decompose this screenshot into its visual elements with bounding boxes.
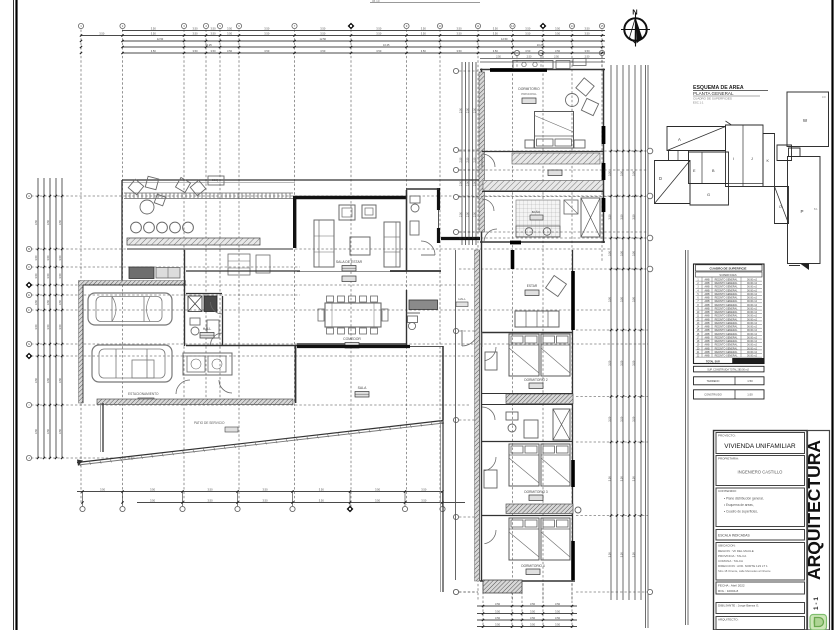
svg-text:3.50: 3.50 bbox=[58, 428, 62, 434]
svg-text:F: F bbox=[28, 308, 30, 312]
upper wing outer walls bbox=[480, 69, 605, 244]
key plan E B block bbox=[689, 152, 729, 184]
bar stools bbox=[131, 222, 194, 233]
svg-text:3.50: 3.50 bbox=[607, 476, 611, 482]
svg-text:TERRENO: TERRENO bbox=[707, 379, 720, 383]
svg-text:3.50: 3.50 bbox=[555, 32, 561, 36]
svg-text:DORMITORIO: DORMITORIO bbox=[518, 87, 540, 91]
svg-text:00.00 m2: 00.00 m2 bbox=[747, 286, 758, 289]
svg-text:RECINTO GENERAL: RECINTO GENERAL bbox=[715, 315, 738, 318]
key plan K rect bbox=[763, 134, 775, 187]
svg-text:3.50: 3.50 bbox=[607, 296, 611, 302]
svg-text:3.50: 3.50 bbox=[584, 32, 590, 36]
title block frame bbox=[714, 431, 808, 630]
svg-text:15: 15 bbox=[600, 24, 604, 28]
svg-text:3.50: 3.50 bbox=[619, 552, 623, 558]
living second label bbox=[342, 276, 356, 282]
wing-left rail dimension texts bbox=[459, 107, 476, 216]
svg-text:3.50: 3.50 bbox=[619, 360, 623, 366]
terrace window band bbox=[124, 193, 293, 199]
svg-text:10.25: 10.25 bbox=[537, 43, 544, 47]
bottom-left rail dimension texts bbox=[100, 488, 427, 503]
svg-text:RECINTO GENERAL: RECINTO GENERAL bbox=[715, 286, 738, 289]
svg-text:3.50: 3.50 bbox=[375, 499, 381, 503]
svg-text:00.00 m2: 00.00 m2 bbox=[747, 282, 758, 285]
grid line y=196 bbox=[26, 193, 610, 198]
svg-text:3.50: 3.50 bbox=[530, 616, 536, 620]
svg-text:3.50: 3.50 bbox=[456, 27, 462, 31]
dibujante box bbox=[716, 603, 805, 614]
bottom bubble x=237.5 bbox=[235, 490, 240, 511]
svg-text:3.50: 3.50 bbox=[493, 32, 499, 36]
bath2 fixtures bbox=[506, 412, 538, 510]
svg-text:AMB: AMB bbox=[705, 279, 710, 282]
svg-text:2.50: 2.50 bbox=[466, 157, 469, 162]
key plan A trapezoid bbox=[667, 127, 726, 151]
svg-text:3.50: 3.50 bbox=[34, 428, 38, 434]
svg-text:G: G bbox=[707, 192, 710, 197]
svg-text:AMB: AMB bbox=[705, 300, 710, 303]
svg-text:00.00 m2: 00.00 m2 bbox=[747, 318, 758, 321]
garage car 2 bbox=[92, 345, 172, 382]
svg-text:3.50: 3.50 bbox=[264, 32, 270, 36]
svg-text:RECINTO GENERAL: RECINTO GENERAL bbox=[715, 326, 738, 329]
patio left wall bbox=[101, 403, 104, 452]
grid line x=206 bbox=[203, 23, 208, 400]
svg-text:2.50: 2.50 bbox=[459, 211, 462, 216]
svg-text:AMB: AMB bbox=[705, 282, 710, 285]
svg-text:2.50: 2.50 bbox=[473, 157, 476, 162]
grid line x=440 bbox=[437, 23, 442, 505]
kitchen counter hatched bbox=[127, 238, 293, 249]
vertical wing thick black segments bbox=[513, 250, 574, 580]
svg-text:3.50: 3.50 bbox=[320, 49, 326, 53]
bath tiled floor bbox=[516, 200, 560, 237]
svg-text:AMB: AMB bbox=[705, 333, 710, 336]
key plan G rect bbox=[690, 184, 729, 206]
bottom wing rail dimension texts bbox=[495, 602, 561, 627]
svg-text:RECINTO GENERAL: RECINTO GENERAL bbox=[715, 355, 738, 358]
svg-text:AMB: AMB bbox=[705, 315, 710, 318]
bottom bubble x=82.5 bbox=[80, 490, 85, 511]
patio label bbox=[194, 421, 238, 432]
grid line x=220 bbox=[217, 23, 222, 400]
svg-text:06 10: 06 10 bbox=[372, 0, 380, 3]
grid line x=351 bbox=[348, 23, 355, 512]
svg-text:RECINTO GENERAL: RECINTO GENERAL bbox=[715, 347, 738, 350]
svg-text:3.50: 3.50 bbox=[631, 476, 635, 482]
svg-text:12: 12 bbox=[511, 24, 515, 28]
svg-text:3.50: 3.50 bbox=[607, 170, 611, 176]
key plan connector lines bbox=[729, 184, 775, 187]
svg-text:2.50: 2.50 bbox=[473, 107, 476, 112]
svg-text:ARQUITECTURA: ARQUITECTURA bbox=[804, 440, 824, 580]
svg-text:C: C bbox=[28, 265, 30, 269]
svg-text:00.00 m2: 00.00 m2 bbox=[747, 279, 758, 282]
svg-text:3.50: 3.50 bbox=[227, 27, 233, 31]
svg-text:N: N bbox=[632, 8, 637, 17]
svg-text:3.50: 3.50 bbox=[58, 324, 62, 330]
diagonal tip arrow bbox=[77, 460, 83, 467]
master nightstands bbox=[525, 140, 585, 148]
hall closet dark band bbox=[409, 300, 438, 310]
svg-text:RECINTO GENERAL: RECINTO GENERAL bbox=[715, 282, 738, 285]
wing bottom right circled bbox=[575, 507, 581, 513]
svg-text:3.50: 3.50 bbox=[46, 428, 50, 434]
svg-text:3.50: 3.50 bbox=[58, 299, 62, 305]
right dimension rails bbox=[611, 65, 688, 628]
svg-text:BBQ: BBQ bbox=[212, 178, 219, 182]
dark storage box bbox=[204, 296, 217, 312]
svg-text:3.50: 3.50 bbox=[376, 27, 382, 31]
master bed bbox=[535, 112, 574, 149]
svg-text:SUPERFICIES: SUPERFICIES bbox=[719, 273, 737, 277]
svg-text:3.50: 3.50 bbox=[530, 610, 536, 614]
right bubble y=238 bbox=[610, 235, 653, 241]
svg-text:RECINTO GENERAL: RECINTO GENERAL bbox=[715, 340, 738, 343]
svg-text:RECINTO GENERAL: RECINTO GENERAL bbox=[715, 300, 738, 303]
wing horizontal grid dashes bbox=[459, 151, 648, 269]
svg-text:HALL: HALL bbox=[203, 327, 212, 331]
svg-text:RECINTO GENERAL: RECINTO GENERAL bbox=[715, 289, 738, 292]
bottom bubble x=182.5 bbox=[180, 490, 185, 511]
svg-text:3.50: 3.50 bbox=[631, 250, 635, 256]
key plan O piece bbox=[775, 187, 789, 224]
svg-text:14: 14 bbox=[570, 24, 574, 28]
grid line x=543 bbox=[540, 23, 547, 600]
wing top rail dimension texts bbox=[496, 56, 590, 59]
svg-text:3.50: 3.50 bbox=[584, 49, 590, 53]
corridor walls to wing bbox=[410, 250, 456, 580]
svg-text:DORMITORIO 2: DORMITORIO 2 bbox=[524, 378, 548, 382]
garage walls bbox=[79, 250, 187, 403]
svg-text:ARQUITECTO:: ARQUITECTO: bbox=[718, 618, 739, 622]
svg-text:AMB: AMB bbox=[705, 318, 710, 321]
svg-text:DIRECCION : AVD. NORTE 123 LT: DIRECCION : AVD. NORTE 123 LT 1 bbox=[718, 564, 768, 568]
right page border bbox=[831, 0, 833, 630]
svg-text:3.50: 3.50 bbox=[631, 416, 635, 422]
svg-text:3.50: 3.50 bbox=[58, 255, 62, 261]
bath sinks bbox=[516, 226, 560, 237]
svg-text:RECINTO GENERAL: RECINTO GENERAL bbox=[715, 344, 738, 347]
bottom bubble x=442.5 bbox=[440, 490, 445, 511]
upper wing door arcs bbox=[482, 154, 497, 242]
bath fixtures bbox=[190, 302, 223, 345]
svg-text:AMB: AMB bbox=[705, 289, 710, 292]
living armchair squares bbox=[339, 205, 376, 220]
fecha box bbox=[716, 582, 805, 594]
bubble x456 y=331 bbox=[453, 328, 478, 333]
svg-text:DORMITORIO 3: DORMITORIO 3 bbox=[524, 490, 548, 494]
svg-text:3.50: 3.50 bbox=[99, 32, 105, 36]
svg-text:3.50: 3.50 bbox=[319, 499, 325, 503]
svg-text:3.50: 3.50 bbox=[493, 27, 499, 31]
svg-text:3.50: 3.50 bbox=[151, 49, 157, 53]
kitchen left wall bbox=[121, 180, 123, 282]
grid line x=572 bbox=[569, 23, 574, 600]
svg-text:3.50: 3.50 bbox=[456, 32, 462, 36]
grid line y=249 bbox=[26, 246, 610, 251]
bottom-left dimension rails bbox=[77, 492, 465, 503]
svg-text:3.50: 3.50 bbox=[46, 377, 50, 383]
terrace table small bbox=[208, 176, 224, 185]
svg-text:AMB: AMB bbox=[705, 336, 710, 339]
svg-text:2.50: 2.50 bbox=[459, 107, 462, 112]
svg-text:3.50: 3.50 bbox=[530, 602, 536, 606]
svg-text:A: A bbox=[678, 137, 681, 142]
grid line y=295 bbox=[26, 292, 300, 297]
svg-text:3.50: 3.50 bbox=[227, 32, 233, 36]
svg-text:• Plano distribución general: • Plano distribución general, bbox=[724, 497, 764, 501]
wing left rails bbox=[462, 62, 476, 245]
family room top wall bbox=[296, 345, 411, 403]
bottom bubble x=350 bbox=[347, 490, 354, 512]
bubble x456 y=592 bbox=[453, 589, 478, 594]
svg-text:3.50: 3.50 bbox=[421, 49, 427, 53]
svg-text:I: I bbox=[733, 157, 734, 161]
svg-text:3.50: 3.50 bbox=[34, 219, 38, 225]
svg-text:ROL : 10004-8: ROL : 10004-8 bbox=[718, 589, 738, 593]
svg-text:AMB: AMB bbox=[705, 329, 710, 332]
svg-text:3.50: 3.50 bbox=[151, 32, 157, 36]
svg-text:3.50: 3.50 bbox=[631, 552, 635, 558]
bottom bubbles bbox=[453, 589, 652, 594]
svg-text:3.0: 3.0 bbox=[822, 95, 826, 99]
svg-text:COMUNA : TALCA: COMUNA : TALCA bbox=[718, 559, 743, 563]
right rail dimension texts bbox=[607, 170, 635, 557]
svg-text:3.50: 3.50 bbox=[34, 377, 38, 383]
walkin label bbox=[548, 170, 562, 176]
svg-text:8.1: 8.1 bbox=[814, 207, 818, 211]
bubble x456 y=420 bbox=[453, 417, 478, 422]
living center table bbox=[350, 237, 370, 255]
right horizontal dashed lines bbox=[576, 329, 648, 517]
ubicacion box bbox=[716, 543, 805, 581]
svg-text:3.50: 3.50 bbox=[555, 616, 561, 620]
left dimension rails bbox=[38, 178, 62, 458]
upper wing right wall thick segments bbox=[602, 126, 606, 212]
svg-text:3.50: 3.50 bbox=[207, 488, 213, 492]
svg-text:00.00 m2: 00.00 m2 bbox=[747, 326, 758, 329]
svg-text:3.50: 3.50 bbox=[631, 170, 635, 176]
svg-text:• Esquema de areas,: • Esquema de areas, bbox=[724, 503, 754, 507]
terrace chairs bbox=[128, 176, 205, 214]
svg-text:RECINTO GENERAL: RECINTO GENERAL bbox=[715, 329, 738, 332]
master chairs corner bbox=[566, 78, 599, 116]
svg-text:AMB: AMB bbox=[705, 297, 710, 300]
svg-text:3.50: 3.50 bbox=[262, 488, 268, 492]
svg-text:2.50: 2.50 bbox=[466, 211, 469, 216]
arquitecto box bbox=[716, 617, 805, 630]
svg-text:00.00 m2: 00.00 m2 bbox=[747, 347, 758, 350]
svg-text:3.50: 3.50 bbox=[376, 32, 382, 36]
dining label bbox=[343, 337, 361, 348]
svg-text:3.50: 3.50 bbox=[150, 488, 156, 492]
grid line x=602 bbox=[599, 23, 604, 262]
svg-text:00.00 m2: 00.00 m2 bbox=[747, 344, 758, 347]
svg-text:COMEDOR: COMEDOR bbox=[343, 337, 361, 341]
svg-text:AMB: AMB bbox=[705, 355, 710, 358]
grid line y=310 bbox=[26, 307, 610, 312]
svg-text:CUADRO DE SUPERFICIE: CUADRO DE SUPERFICIE bbox=[709, 267, 746, 271]
master dresser bbox=[513, 59, 586, 69]
svg-text:G: G bbox=[28, 342, 30, 346]
svg-text:AMB: AMB bbox=[705, 351, 710, 354]
svg-text:00.00 m2: 00.00 m2 bbox=[747, 315, 758, 318]
svg-text:RECINTO GENERAL: RECINTO GENERAL bbox=[715, 322, 738, 325]
svg-text:00.00 m2: 00.00 m2 bbox=[747, 355, 758, 358]
entry door arc bbox=[421, 241, 435, 255]
grid line x=184 bbox=[181, 23, 186, 505]
svg-text:3.50: 3.50 bbox=[192, 27, 198, 31]
grid line y=458 bbox=[26, 455, 140, 460]
svg-text:3.50: 3.50 bbox=[46, 255, 50, 261]
svg-text:3.50: 3.50 bbox=[495, 623, 501, 627]
grid line y=344 bbox=[26, 341, 648, 346]
svg-text:2.50: 2.50 bbox=[466, 180, 469, 185]
svg-text:D: D bbox=[659, 176, 662, 181]
svg-text:00.00 m2: 00.00 m2 bbox=[747, 293, 758, 296]
svg-text:00.00 m2: 00.00 m2 bbox=[747, 297, 758, 300]
svg-text:3.50: 3.50 bbox=[151, 27, 157, 31]
gallery door arc bbox=[462, 330, 478, 346]
key plan D square bbox=[655, 161, 691, 204]
bedroom3 label bbox=[524, 490, 548, 501]
grid line x=294.5 bbox=[292, 23, 297, 505]
svg-text:10.25: 10.25 bbox=[383, 43, 390, 47]
svg-text:RECINTO GENERAL: RECINTO GENERAL bbox=[715, 311, 738, 314]
svg-text:3.50: 3.50 bbox=[555, 610, 561, 614]
bath2 X closet bbox=[553, 409, 570, 440]
svg-text:AMB: AMB bbox=[705, 307, 710, 310]
escala box bbox=[716, 530, 805, 541]
svg-text:SALA: SALA bbox=[358, 386, 367, 390]
svg-text:2.50: 2.50 bbox=[459, 180, 462, 185]
key plan L M small bbox=[777, 145, 800, 161]
svg-text:3.50: 3.50 bbox=[631, 360, 635, 366]
kitchen island dark bbox=[129, 267, 180, 279]
svg-text:3.50: 3.50 bbox=[525, 27, 531, 31]
grid line y=405 bbox=[26, 402, 470, 407]
svg-text:PRINCIPAL: PRINCIPAL bbox=[521, 92, 537, 96]
svg-text:AMB: AMB bbox=[705, 286, 710, 289]
svg-text:3.50: 3.50 bbox=[320, 32, 326, 36]
svg-text:PLANTA GENERAL: PLANTA GENERAL bbox=[693, 91, 734, 96]
right bubble y=269 bbox=[610, 266, 653, 272]
bottom wing dimension rails bbox=[477, 583, 577, 628]
svg-text:11: 11 bbox=[477, 24, 480, 28]
svg-text:AMB: AMB bbox=[705, 344, 710, 347]
svg-text:12.50: 12.50 bbox=[501, 37, 508, 41]
svg-text:AMB: AMB bbox=[705, 293, 710, 296]
svg-text:3.50: 3.50 bbox=[493, 49, 499, 53]
pantry shelves bbox=[228, 254, 270, 275]
bottom bubble x=122.5 bbox=[120, 490, 125, 511]
garage car 1 bbox=[88, 293, 172, 325]
svg-text:E: E bbox=[28, 293, 30, 297]
bath walls bbox=[186, 271, 300, 346]
bath X closet bbox=[581, 198, 600, 237]
svg-text:3.50: 3.50 bbox=[555, 27, 561, 31]
green logo bbox=[810, 615, 827, 630]
svg-text:J: J bbox=[751, 157, 753, 161]
svg-text:REGION : VII DEL MAULE: REGION : VII DEL MAULE bbox=[718, 549, 754, 553]
svg-text:PROPIETARIA:: PROPIETARIA: bbox=[718, 457, 739, 461]
svg-text:00.00 m2: 00.00 m2 bbox=[747, 311, 758, 314]
key plan small quads bbox=[669, 151, 689, 161]
svg-text:1 - 1: 1 - 1 bbox=[813, 597, 820, 610]
living/dining divider line bbox=[297, 272, 406, 345]
grid line x=81 bbox=[78, 23, 83, 505]
bath2 wall bbox=[482, 441, 573, 443]
svg-text:3.50: 3.50 bbox=[607, 552, 611, 558]
contenido box bbox=[716, 488, 805, 527]
top cropped title line bbox=[370, 0, 480, 3]
svg-text:3.50: 3.50 bbox=[456, 49, 462, 53]
svg-text:1:50: 1:50 bbox=[747, 379, 753, 383]
svg-text:3.50: 3.50 bbox=[619, 416, 623, 422]
bubble x456 y=150 bbox=[453, 147, 478, 152]
garage label bbox=[128, 392, 159, 404]
svg-text:3.50: 3.50 bbox=[607, 250, 611, 256]
laundry units bbox=[176, 353, 232, 394]
powder room walls bbox=[390, 188, 480, 271]
arquitectura column bbox=[804, 431, 830, 630]
bedroom4 label bbox=[521, 564, 545, 575]
sitting room chair bbox=[546, 276, 567, 297]
master label bbox=[518, 87, 540, 104]
svg-text:BAÑO: BAÑO bbox=[532, 209, 541, 214]
svg-text:RECINTO GENERAL: RECINTO GENERAL bbox=[715, 297, 738, 300]
svg-text:RECINTO GENERAL: RECINTO GENERAL bbox=[715, 304, 738, 307]
svg-text:3.50: 3.50 bbox=[555, 602, 561, 606]
bubble x456 y=170 bbox=[453, 167, 478, 172]
svg-text:2.50: 2.50 bbox=[459, 157, 462, 162]
svg-text:RECINTO GENERAL: RECINTO GENERAL bbox=[715, 318, 738, 321]
upper wing rails above bbox=[480, 50, 605, 69]
svg-text:10.25: 10.25 bbox=[205, 43, 212, 47]
svg-text:P: P bbox=[800, 209, 803, 214]
bano label bbox=[530, 209, 543, 220]
dining table bbox=[318, 296, 388, 334]
hall wc bbox=[407, 290, 421, 345]
wing door arcs bbox=[482, 332, 496, 544]
scale box 1 bbox=[694, 377, 765, 385]
svg-text:UBICACION:: UBICACION: bbox=[718, 544, 736, 548]
north arrow bbox=[621, 8, 650, 47]
svg-text:AMB: AMB bbox=[705, 347, 710, 350]
left rail dimension texts bbox=[34, 219, 62, 434]
svg-text:RECINTO GENERAL: RECINTO GENERAL bbox=[715, 307, 738, 310]
svg-text:AMB: AMB bbox=[705, 340, 710, 343]
bedroom3 beds bbox=[509, 444, 570, 486]
svg-text:DORMITORIO 4: DORMITORIO 4 bbox=[521, 564, 545, 568]
key plan W rect bbox=[787, 92, 829, 147]
svg-text:2.50: 2.50 bbox=[466, 107, 469, 112]
wing bottom hatched strip bbox=[483, 580, 522, 593]
area table rows bbox=[696, 278, 763, 358]
svg-text:3.50: 3.50 bbox=[319, 488, 325, 492]
svg-text:3.50: 3.50 bbox=[58, 273, 62, 279]
svg-text:3.50: 3.50 bbox=[150, 499, 156, 503]
grid line y=285 bbox=[26, 282, 480, 289]
key plan title bbox=[693, 85, 768, 105]
svg-text:B: B bbox=[28, 247, 30, 251]
bubble x456 y=232 bbox=[453, 229, 478, 234]
right bubble y=196 bbox=[610, 193, 653, 199]
svg-text:3.50: 3.50 bbox=[584, 27, 590, 31]
svg-text:INGENIERO CASTILLO: INGENIERO CASTILLO bbox=[738, 470, 784, 475]
